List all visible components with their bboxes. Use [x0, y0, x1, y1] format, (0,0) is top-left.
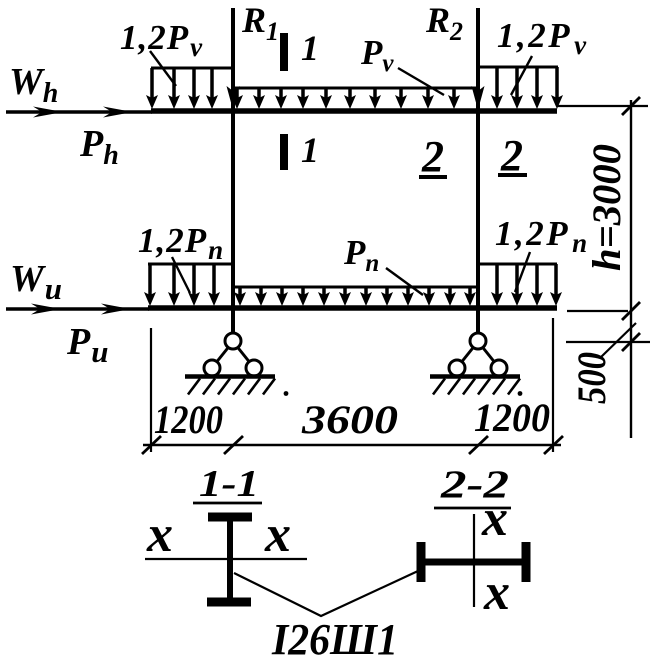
svg-text:Ph: Ph [79, 123, 119, 171]
leader Pn [386, 268, 423, 295]
bottom dimension extension line left [150, 328, 152, 452]
leader Pv [398, 68, 444, 95]
svg-text:x: x [481, 490, 508, 547]
svg-text:1-1: 1-1 [199, 463, 259, 505]
horizontal force line lower (Wu + Pu) [6, 304, 149, 315]
svg-text:500: 500 [569, 352, 614, 404]
distributed load 1,2Pn lower-right block [478, 264, 562, 306]
support 1 (pinned, left) [185, 333, 288, 396]
right dim ticks [622, 97, 640, 351]
svg-text:1,2Pn: 1,2Pn [138, 221, 224, 265]
distributed load 1,2Pv upper-left block [146, 68, 233, 109]
svg-text:x: x [146, 506, 173, 563]
upper beam [151, 108, 557, 114]
svg-text:Pu: Pu [66, 321, 108, 369]
section 1-1 I-beam bottom flange [207, 598, 251, 607]
bottom dimension line [143, 444, 561, 446]
section 2-2 x axis line [473, 514, 475, 607]
svg-text:2: 2 [421, 132, 444, 181]
right dimension vertical line [630, 100, 632, 438]
section 2-2 left flange [417, 542, 426, 582]
dimension ticks bottom [142, 436, 563, 454]
section 2-2 I-beam web horizontal [420, 559, 529, 566]
reaction R2 arrowhead [472, 86, 485, 110]
leader for 500 [600, 323, 636, 358]
svg-text:1,2Pv: 1,2Pv [497, 16, 589, 60]
svg-text:I26Ш1: I26Ш1 [271, 615, 398, 658]
svg-text:2: 2 [500, 131, 523, 180]
svg-text:x: x [264, 506, 291, 563]
leader V to shape label [234, 571, 418, 616]
svg-text:Pv: Pv [360, 33, 394, 77]
bottom dimension extension line right [552, 318, 554, 452]
right dim extension mid lower beam [567, 310, 628, 312]
leader lower-right [515, 252, 530, 292]
svg-text:Wh: Wh [9, 61, 58, 109]
svg-text:1200: 1200 [474, 395, 550, 440]
svg-text:1,2Pn: 1,2Pn [495, 214, 590, 258]
distributed load Pn lower middle [233, 287, 478, 306]
leader upper-right [511, 56, 532, 95]
column 1 [231, 8, 235, 334]
svg-text:h=3000: h=3000 [584, 144, 629, 271]
svg-text:R1: R1 [241, 0, 279, 46]
right dim extension pin level [566, 341, 650, 343]
horizontal force line upper (Wh + Ph) [6, 107, 152, 118]
svg-text:Wu: Wu [10, 258, 62, 306]
svg-text:Pn: Pn [343, 233, 379, 277]
svg-text:1,2Pv: 1,2Pv [120, 18, 203, 62]
svg-text:1: 1 [301, 28, 319, 68]
support 2 (pinned, right) [430, 333, 522, 396]
distributed load Pv upper middle [231, 88, 478, 109]
section 1-1 x axis line [145, 558, 307, 560]
leader upper-left [150, 51, 176, 86]
section 2-2 right flange [522, 542, 531, 582]
section mark 1 below beam [280, 134, 288, 170]
svg-text:1: 1 [301, 130, 319, 170]
lower beam [148, 305, 557, 311]
distributed load 1,2Pn lower-left block [144, 264, 233, 306]
section mark 1 above beam [280, 33, 288, 71]
svg-text:3600: 3600 [301, 397, 398, 442]
leader lower-left [172, 257, 190, 293]
right dim extension top [557, 105, 648, 107]
svg-text:x: x [483, 564, 510, 621]
reaction R1 arrowhead [227, 86, 240, 110]
distributed load 1,2Pv upper-right block [478, 67, 563, 109]
column 2 [476, 8, 480, 334]
svg-text:1200: 1200 [154, 397, 223, 442]
section 1-1 I-beam web [227, 515, 233, 601]
svg-text:R2: R2 [425, 0, 463, 46]
section 1-1 I-beam top flange [208, 513, 252, 522]
